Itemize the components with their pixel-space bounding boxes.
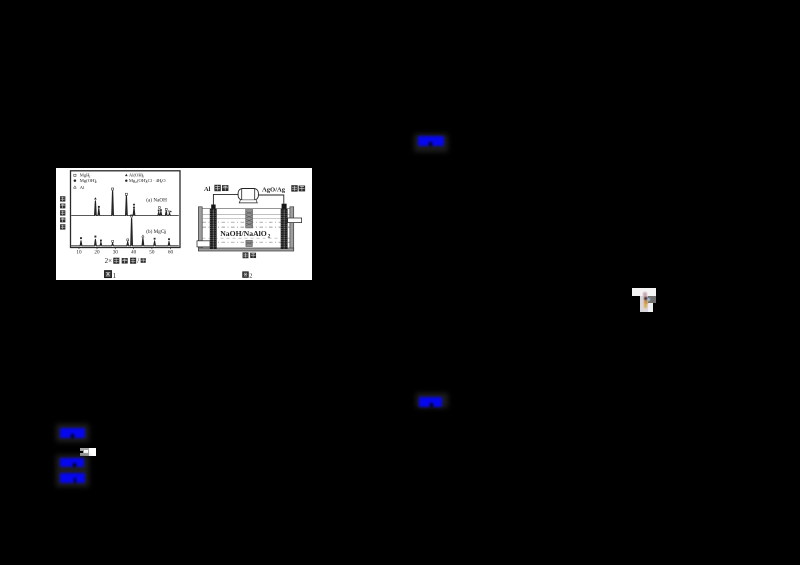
svg-text:(a) NaOH: (a) NaOH [146, 197, 167, 204]
markers curve a [94, 188, 172, 212]
svg-text:2: 2 [164, 231, 166, 235]
curve (a) NaOH [71, 191, 179, 216]
caption 图2 [242, 271, 252, 279]
plot frame [71, 171, 181, 248]
caption 图1 [104, 270, 117, 280]
tiny colourful T icon [632, 288, 656, 296]
label 隔膜 [243, 252, 256, 258]
svg-text:30: 30 [113, 249, 119, 255]
svg-text:NaOH/NaAlO: NaOH/NaAlO [220, 229, 267, 238]
blue link blob top right [414, 134, 448, 152]
svg-text:2×: 2× [105, 257, 113, 265]
separator column [246, 209, 253, 247]
left column blue blob 1 [56, 424, 89, 442]
left column blue blob 3 [56, 470, 89, 487]
left pipe [197, 241, 210, 247]
tank walls [198, 207, 293, 251]
legend col 1 [74, 173, 98, 190]
svg-text:AgO/Ag: AgO/Ag [262, 186, 286, 193]
svg-text:O: O [162, 178, 166, 183]
blue link blob mid right [416, 393, 448, 409]
wire right [258, 195, 283, 204]
left electrode [210, 205, 217, 250]
svg-text:40: 40 [131, 249, 137, 255]
y-axis label (vertical CJK) [60, 196, 65, 229]
svg-text:1: 1 [113, 272, 117, 280]
curve (b) MgCl2 [71, 218, 179, 246]
small grey/white icon [80, 448, 89, 457]
electrolyte label NaOH/NaAlO2 [220, 229, 270, 240]
svg-text:20: 20 [94, 249, 100, 255]
svg-text:/: / [137, 257, 139, 265]
svg-text:2: 2 [95, 180, 97, 184]
left column blue blob 2 [56, 455, 89, 471]
label Al 电极 [204, 185, 228, 193]
figure white box [56, 168, 312, 280]
svg-text:2: 2 [249, 273, 252, 280]
label AgO/Ag 电极 [262, 185, 305, 193]
liquid level lines [202, 214, 290, 218]
right electrode [281, 204, 288, 249]
svg-text:Al: Al [204, 186, 211, 193]
power source symbol [238, 189, 258, 203]
legend col 2 [125, 173, 166, 184]
svg-text:2: 2 [268, 233, 271, 239]
svg-text:10: 10 [76, 249, 82, 255]
wire left [213, 194, 238, 204]
svg-text:50: 50 [149, 249, 155, 255]
x axis ticks & labels [79, 248, 171, 250]
svg-text:60: 60 [168, 249, 174, 255]
right pipe [288, 218, 302, 223]
svg-text:Mg(OH): Mg(OH) [80, 178, 97, 183]
x axis title 2×衍射角/度 [105, 257, 146, 265]
svg-text:Al: Al [80, 185, 85, 190]
markers curve b [80, 215, 170, 242]
